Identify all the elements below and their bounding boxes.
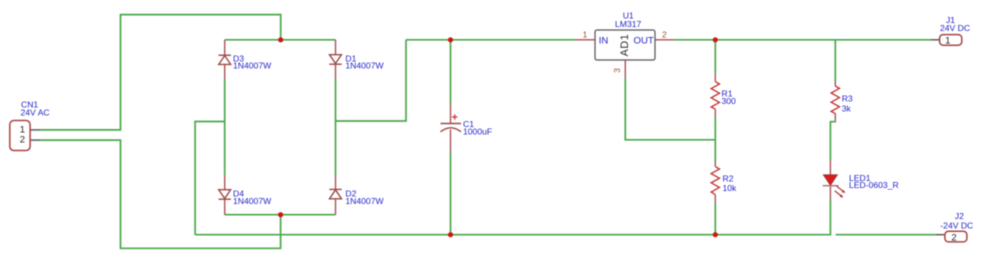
wire R3 to LED jog [830, 121, 835, 161]
svg-text:24V AC: 24V AC [21, 108, 50, 118]
junction node R2 bottom [713, 232, 718, 237]
svg-text:AD1: AD1 [619, 34, 631, 57]
wire right tap to plus rail [336, 40, 407, 121]
diode D2 [329, 175, 384, 215]
svg-text:OUT: OUT [634, 35, 654, 46]
svg-text:1N4007W: 1N4007W [233, 60, 272, 70]
resistor R2 [711, 161, 737, 204]
junction node bridge top [278, 37, 283, 42]
wire J2 segment [836, 234, 936, 236]
connector CN1 [10, 99, 50, 150]
wire DC minus rail [195, 200, 830, 235]
svg-text:2: 2 [951, 233, 956, 244]
wire CN1 pin1 to bridge top node [40, 15, 281, 130]
wire bridge top rail [225, 39, 336, 41]
wire plus rail right [674, 39, 931, 41]
svg-text:300: 300 [722, 96, 737, 106]
svg-text:2: 2 [662, 29, 667, 39]
wire CN1 pin2 to bridge bottom node [40, 140, 281, 248]
svg-text:3k: 3k [842, 103, 852, 113]
svg-text:J2: J2 [955, 211, 964, 221]
junction node bridge bottom [278, 212, 283, 217]
wire C1 bottom [450, 153, 452, 235]
wire ADJ to R1 R2 node [625, 78, 715, 140]
junction node R1 top [713, 37, 718, 42]
connector J1 [931, 15, 970, 47]
svg-text:2: 2 [20, 135, 25, 146]
svg-text:LM317: LM317 [615, 19, 641, 29]
resistor R1 [711, 74, 736, 117]
svg-text:1N4007W: 1N4007W [233, 196, 272, 206]
wire bridge bottom rail [225, 214, 336, 216]
wire R1 top [714, 40, 716, 74]
wire R1 to R2 [714, 117, 716, 161]
svg-text:R3: R3 [842, 94, 853, 104]
connector J2 [936, 211, 973, 244]
wire D3-D4 branch [224, 80, 226, 175]
svg-text:1N4007W: 1N4007W [345, 60, 384, 70]
svg-text:1000uF: 1000uF [463, 126, 492, 136]
wire left tap to minus rail [195, 122, 225, 235]
svg-text:1: 1 [583, 29, 588, 39]
LED LED1 [823, 160, 899, 200]
diode D3 [219, 40, 273, 80]
diode D1 [329, 40, 384, 79]
svg-text:LED-0603_R: LED-0603_R [849, 180, 899, 190]
wire C1 top [450, 40, 452, 104]
svg-text:1N4007W: 1N4007W [345, 196, 384, 206]
wire R2 bottom [714, 204, 716, 235]
capacitor C1 [441, 104, 493, 153]
wire plus rail left [406, 39, 575, 41]
svg-text:1: 1 [945, 36, 950, 47]
junction node C1 bottom [448, 232, 453, 237]
svg-text:IN: IN [599, 35, 609, 46]
svg-text:10k: 10k [723, 183, 738, 193]
wire R3 top [834, 40, 836, 81]
svg-text:3: 3 [612, 68, 622, 73]
svg-text:-24V DC: -24V DC [940, 220, 973, 230]
wire D1-D2 branch [335, 79, 337, 175]
svg-text:24V DC: 24V DC [940, 23, 970, 33]
junction node C1 top [448, 37, 453, 42]
diode D4 [219, 175, 273, 215]
resistor R3 [831, 81, 853, 121]
regulator U1 [575, 10, 674, 78]
